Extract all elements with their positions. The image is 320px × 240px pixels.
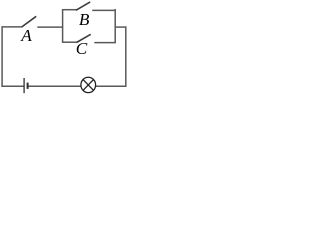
lamp X diagonal 2 [83,80,93,91]
label B [79,11,90,28]
lamp X diagonal 1 [83,80,93,91]
wire bottom left segment [1,85,24,87]
switch C blade [77,34,91,42]
switch B blade [76,2,90,10]
wire branch B right [92,9,116,11]
wire branch B left [63,9,77,11]
battery long plate [23,78,25,93]
wire middle right [115,26,127,28]
switch A blade [22,16,37,27]
wire from switch A to left junction [37,26,63,28]
wire bottom middle segment [28,85,81,87]
lamp circle [81,77,96,92]
wire branch C right [94,42,116,44]
wire right vertical rail [125,26,127,87]
node right junction vertical [114,9,116,43]
label C [76,40,87,57]
wire left vertical rail [1,26,3,87]
wire branch C left [63,41,78,43]
node left junction vertical [62,9,64,43]
label A [21,27,32,44]
wire top-left from left rail to switch A [2,26,22,28]
wire bottom right segment [95,85,126,87]
battery short plate [27,83,29,89]
